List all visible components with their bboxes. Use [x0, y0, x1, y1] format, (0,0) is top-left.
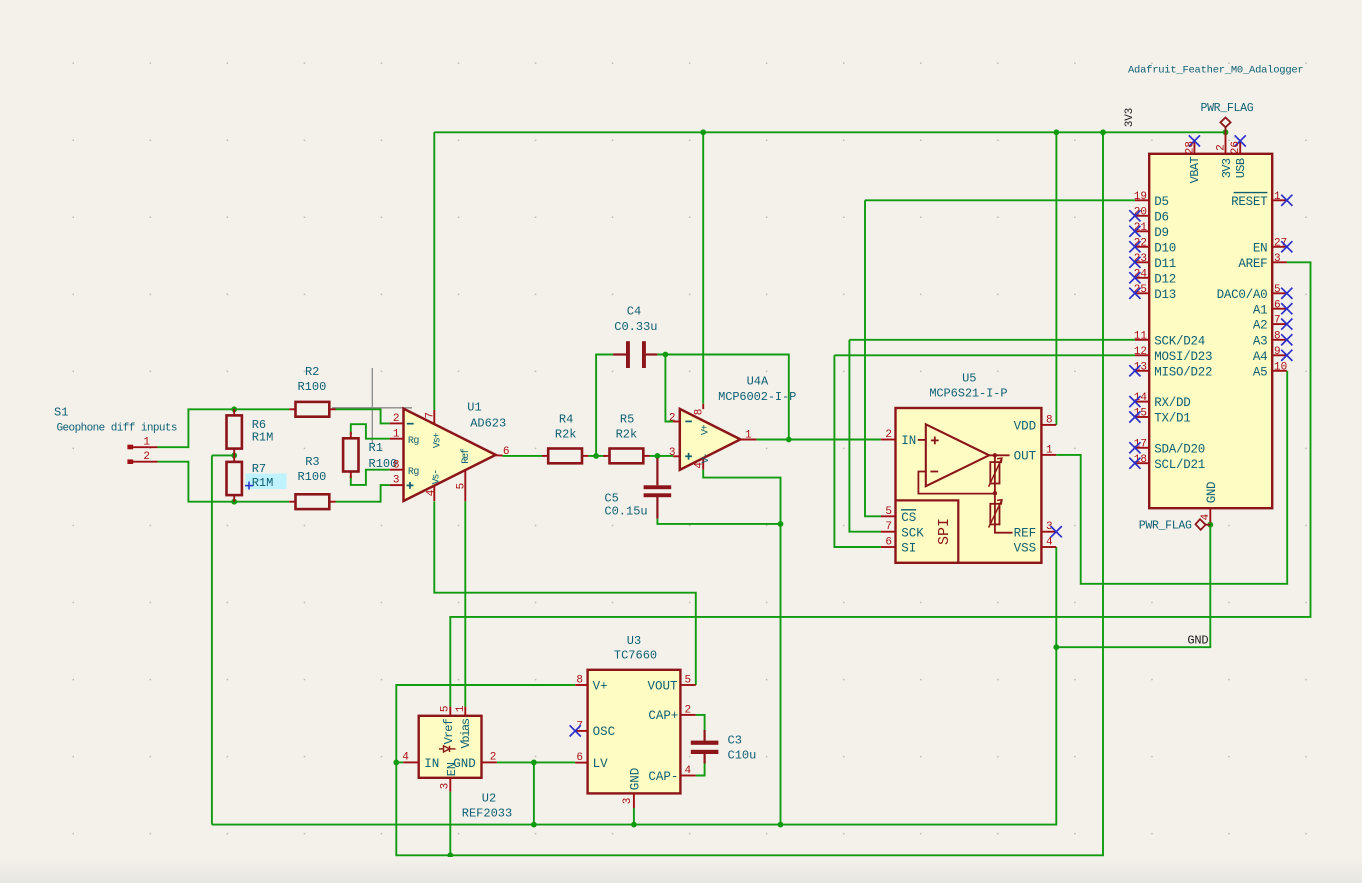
svg-text:EN: EN — [1253, 241, 1268, 255]
svg-text:5: 5 — [456, 483, 468, 490]
svg-text:5: 5 — [885, 506, 892, 518]
svg-text:4: 4 — [426, 489, 438, 496]
svg-text:MISO/D22: MISO/D22 — [1154, 365, 1212, 379]
svg-text:4: 4 — [1200, 513, 1212, 520]
svg-text:C0.15u: C0.15u — [604, 505, 647, 519]
svg-text:MOSI/D23: MOSI/D23 — [1154, 350, 1212, 364]
svg-text:D5: D5 — [1154, 195, 1169, 209]
svg-text:AREF: AREF — [1238, 257, 1267, 271]
svg-text:A5: A5 — [1253, 365, 1268, 379]
svg-text:VOUT: VOUT — [647, 679, 678, 693]
svg-text:D10: D10 — [1154, 241, 1176, 255]
svg-text:IN: IN — [901, 434, 916, 448]
svg-text:8: 8 — [1274, 330, 1281, 342]
svg-text:GND: GND — [1205, 482, 1219, 503]
svg-text:GND: GND — [629, 768, 643, 791]
svg-text:R1: R1 — [369, 441, 383, 455]
svg-text:2: 2 — [143, 451, 150, 463]
svg-text:SCK: SCK — [901, 526, 924, 540]
svg-text:4: 4 — [1046, 537, 1053, 549]
svg-text:RESET: RESET — [1231, 195, 1268, 209]
svg-text:R100: R100 — [297, 470, 326, 484]
svg-text:C3: C3 — [728, 734, 742, 748]
svg-text:3: 3 — [1274, 253, 1281, 265]
svg-text:MCP6S21-I-P: MCP6S21-I-P — [929, 386, 1007, 400]
svg-text:19: 19 — [1134, 191, 1147, 203]
svg-text:SCK/D24: SCK/D24 — [1154, 334, 1205, 348]
svg-text:U2: U2 — [482, 791, 496, 805]
svg-text:SCL/D21: SCL/D21 — [1154, 458, 1205, 472]
svg-text:R1M: R1M — [252, 431, 274, 445]
svg-text:SDA/D20: SDA/D20 — [1154, 442, 1205, 456]
svg-text:3: 3 — [622, 798, 634, 805]
svg-text:REF2033: REF2033 — [462, 807, 512, 821]
svg-text:V-: V- — [701, 454, 712, 464]
svg-text:7: 7 — [1274, 315, 1281, 327]
svg-text:OSC: OSC — [593, 725, 616, 739]
svg-text:6: 6 — [1274, 299, 1281, 311]
svg-text:R5: R5 — [620, 413, 634, 427]
svg-text:V+: V+ — [593, 679, 608, 693]
svg-text:1: 1 — [745, 429, 752, 441]
svg-text:A4: A4 — [1253, 350, 1268, 364]
svg-text:8: 8 — [393, 459, 400, 471]
svg-text:R4: R4 — [559, 413, 573, 427]
svg-text:C4: C4 — [627, 305, 641, 319]
svg-text:VSS: VSS — [1014, 542, 1037, 556]
svg-text:RX/DD: RX/DD — [1154, 396, 1190, 410]
svg-text:D6: D6 — [1154, 210, 1169, 224]
svg-text:IN: IN — [424, 757, 439, 771]
svg-text:5: 5 — [440, 705, 452, 712]
svg-text:7: 7 — [885, 521, 892, 533]
svg-text:A2: A2 — [1253, 319, 1268, 333]
svg-text:3: 3 — [440, 783, 452, 790]
svg-text:2: 2 — [1216, 144, 1228, 151]
svg-text:CAP-: CAP- — [648, 770, 678, 784]
svg-text:MCP6002-I-P: MCP6002-I-P — [718, 390, 796, 404]
svg-text:CS: CS — [901, 511, 916, 525]
svg-text:U1: U1 — [467, 401, 481, 415]
svg-text:8: 8 — [1046, 414, 1053, 426]
svg-text:2: 2 — [885, 429, 892, 441]
svg-text:C5: C5 — [604, 492, 618, 506]
svg-text:U5: U5 — [962, 372, 976, 386]
svg-text:6: 6 — [885, 537, 892, 549]
svg-text:C0.33u: C0.33u — [614, 320, 657, 334]
svg-text:PWR_FLAG: PWR_FLAG — [1139, 519, 1192, 532]
svg-text:Rg: Rg — [408, 467, 420, 478]
svg-text:28: 28 — [1185, 141, 1197, 154]
svg-text:D11: D11 — [1154, 257, 1176, 271]
svg-text:DAC0/A0: DAC0/A0 — [1217, 288, 1268, 302]
svg-text:2: 2 — [669, 413, 676, 425]
svg-text:EN: EN — [445, 762, 459, 776]
svg-text:VBAT: VBAT — [1188, 156, 1202, 183]
svg-text:VDD: VDD — [1014, 419, 1037, 433]
svg-text:R2k: R2k — [555, 427, 577, 441]
svg-text:Adafruit_Feather_M0_Adalogger: Adafruit_Feather_M0_Adalogger — [1128, 65, 1303, 77]
svg-text:Vref: Vref — [442, 718, 456, 744]
svg-text:4: 4 — [402, 751, 409, 763]
svg-text:LV: LV — [593, 757, 609, 771]
svg-text:GND: GND — [1187, 633, 1208, 647]
svg-text:2: 2 — [685, 704, 692, 716]
svg-text:Rg: Rg — [408, 436, 420, 447]
svg-text:U4A: U4A — [747, 375, 769, 389]
svg-text:OUT: OUT — [1014, 449, 1037, 463]
svg-text:A3: A3 — [1253, 334, 1268, 348]
svg-text:Vbias: Vbias — [459, 718, 473, 748]
svg-text:3: 3 — [669, 447, 676, 459]
svg-text:USB: USB — [1234, 158, 1248, 178]
svg-text:R2: R2 — [305, 365, 319, 379]
svg-text:Ref: Ref — [460, 448, 472, 464]
svg-text:3V3: 3V3 — [1124, 108, 1136, 127]
svg-text:4: 4 — [685, 765, 692, 777]
svg-text:D9: D9 — [1154, 226, 1169, 240]
svg-text:11: 11 — [1134, 330, 1148, 342]
svg-text:CAP+: CAP+ — [648, 709, 678, 723]
svg-text:R3: R3 — [305, 455, 319, 469]
svg-text:7: 7 — [424, 412, 436, 419]
svg-text:SPI: SPI — [936, 518, 953, 545]
svg-text:Vs-: Vs- — [431, 470, 442, 485]
svg-text:R2k: R2k — [616, 427, 638, 441]
svg-text:9: 9 — [1274, 346, 1281, 358]
svg-text:1: 1 — [143, 437, 150, 449]
svg-text:V+: V+ — [700, 424, 711, 435]
svg-text:3: 3 — [393, 475, 400, 487]
svg-text:S1: S1 — [54, 406, 68, 420]
svg-text:TC7660: TC7660 — [614, 649, 657, 663]
svg-text:C10u: C10u — [728, 748, 757, 762]
svg-text:A1: A1 — [1253, 303, 1268, 317]
svg-text:1: 1 — [1046, 444, 1053, 456]
svg-text:1: 1 — [1274, 191, 1281, 203]
svg-text:8: 8 — [694, 409, 706, 416]
svg-text:3V3: 3V3 — [1220, 158, 1234, 178]
svg-text:6: 6 — [576, 752, 583, 764]
svg-text:1: 1 — [393, 428, 400, 440]
svg-text:12: 12 — [1134, 346, 1147, 358]
svg-text:Geophone diff inputs: Geophone diff inputs — [57, 423, 177, 435]
svg-text:AD623: AD623 — [470, 417, 506, 431]
svg-text:SI: SI — [901, 542, 916, 556]
svg-text:5: 5 — [685, 675, 692, 687]
svg-text:2: 2 — [490, 751, 497, 763]
svg-text:D12: D12 — [1154, 272, 1176, 286]
svg-text:2: 2 — [393, 413, 400, 425]
svg-text:U3: U3 — [627, 634, 641, 648]
svg-text:26: 26 — [1230, 141, 1242, 154]
svg-text:R100: R100 — [297, 380, 326, 394]
svg-text:REF: REF — [1014, 526, 1037, 540]
svg-text:Vs+: Vs+ — [433, 433, 444, 449]
svg-text:R1M: R1M — [252, 476, 274, 490]
svg-text:8: 8 — [576, 675, 583, 687]
svg-text:6: 6 — [503, 446, 510, 458]
svg-text:TX/D1: TX/D1 — [1154, 412, 1190, 426]
svg-text:10: 10 — [1274, 361, 1287, 373]
svg-text:1: 1 — [455, 705, 467, 712]
svg-text:PWR_FLAG: PWR_FLAG — [1200, 102, 1253, 115]
svg-text:D13: D13 — [1154, 288, 1176, 302]
svg-text:5: 5 — [1274, 284, 1281, 296]
